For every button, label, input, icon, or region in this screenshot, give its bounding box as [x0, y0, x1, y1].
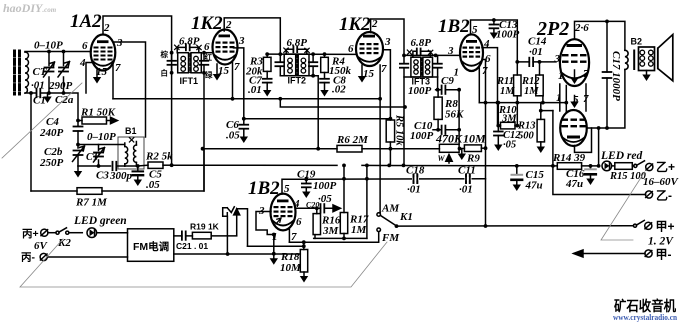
- tube V1 pin labels: [79, 22, 123, 78]
- capacitor C3 (series): [113, 162, 117, 170]
- svg-text:C17 1000P: C17 1000P: [610, 51, 622, 101]
- svg-text:240P: 240P: [39, 127, 64, 139]
- svg-text:丙+: 丙+: [22, 228, 39, 240]
- svg-text:100P: 100P: [496, 29, 520, 41]
- wire R5 bottom: [389, 142, 391, 165]
- wire tuning bus bottom: [48, 93, 79, 126]
- oscillator coil B1: [118, 137, 144, 169]
- svg-text:470K: 470K: [435, 132, 463, 146]
- svg-text:·01: ·01: [31, 80, 45, 92]
- svg-text:7: 7: [234, 61, 240, 73]
- node antenna coil bottom to AVC: [29, 91, 33, 95]
- resistor R2: [148, 162, 163, 168]
- svg-text:.05: .05: [146, 179, 160, 191]
- svg-text:300p: 300p: [109, 170, 133, 182]
- svg-text:10M: 10M: [280, 262, 302, 274]
- svg-text:250P: 250P: [39, 157, 64, 169]
- node IFT1 primary bottom: [170, 71, 174, 75]
- tube V6 1B2 envelope: [271, 194, 296, 231]
- svg-text:3: 3: [554, 53, 561, 65]
- tube V6 grid arrow pin3: [276, 218, 281, 224]
- C6 ground: [240, 137, 248, 144]
- tube V5 section link wires: [559, 84, 561, 111]
- wire audio line y178.8 to C18/C11: [306, 178, 485, 180]
- capacitor C13: [490, 25, 499, 29]
- wire IFT3 left branch: [404, 55, 405, 165]
- node top of CT1: [47, 50, 51, 54]
- svg-text:甲+: 甲+: [656, 220, 675, 234]
- resistor R13: [537, 119, 544, 141]
- wire R10 risers: [498, 103, 517, 126]
- svg-text:1. 2V: 1. 2V: [648, 236, 674, 248]
- svg-text:R6 2M: R6 2M: [336, 134, 369, 146]
- tube V4 plate bar: [466, 40, 477, 43]
- node top of C2a: [62, 50, 66, 54]
- node IFT3 B+: [403, 105, 407, 109]
- wire IFT2 primary cap branch: [279, 54, 281, 76]
- IFT2 secondary tuning capacitor: [309, 62, 317, 66]
- B1 adjuster X mark: [129, 138, 133, 142]
- capacitor C9 (series): [436, 89, 460, 91]
- capacitor C17 (vertical line): [606, 21, 608, 128]
- svg-text:100P: 100P: [313, 180, 337, 192]
- svg-text:290P: 290P: [48, 80, 73, 92]
- wire C18 feed riser: [366, 165, 368, 238]
- tube V4 grid dashes: [463, 47, 481, 58]
- svg-text:6: 6: [82, 40, 88, 52]
- wire V3 pin7 long drop to AM switch: [379, 99, 381, 213]
- svg-text:C1: C1: [33, 95, 46, 107]
- node C5: [136, 164, 140, 168]
- svg-text:乙-: 乙-: [656, 189, 672, 203]
- svg-text:FM: FM: [381, 232, 400, 244]
- tube V3 1K2 envelope: [356, 32, 383, 66]
- wire K1 to 甲+: [397, 225, 634, 227]
- capacitor C4: [74, 127, 83, 132]
- C2b ground: [77, 166, 79, 171]
- svg-text:C18: C18: [406, 165, 425, 177]
- svg-text:5: 5: [284, 183, 290, 195]
- wire V4 pin4 drop: [482, 48, 498, 126]
- svg-text:FM电调: FM电调: [133, 240, 169, 253]
- bus B+ branch y107: [280, 99, 405, 107]
- resistor R7: [77, 188, 102, 195]
- IFT1 wire color labels: [160, 49, 214, 80]
- speaker: [658, 35, 673, 81]
- svg-text:100P: 100P: [410, 130, 434, 142]
- IFT2 primary tuning capacitor: [275, 62, 283, 66]
- wire C20 line y208.3: [296, 207, 334, 209]
- wire R18 top: [303, 242, 305, 249]
- tube V3 plate bar: [363, 35, 375, 38]
- resistor R18: [300, 250, 307, 273]
- svg-text:47u: 47u: [525, 180, 543, 192]
- tube V6 pin labels: [258, 183, 302, 243]
- tube V5b pin labels 1 5 7: [556, 92, 589, 106]
- svg-text:·05: ·05: [503, 140, 516, 151]
- tube V1 plate bar: [97, 40, 109, 43]
- wire IFT1 left drop to HT bus: [171, 53, 173, 166]
- node K1 common: [395, 224, 399, 228]
- svg-text:IFT1: IFT1: [180, 76, 199, 86]
- IFT1 secondary tuning capacitor: [200, 61, 208, 65]
- svg-text:16–60V: 16–60V: [643, 176, 680, 188]
- C1 ground: [43, 97, 51, 104]
- bus screen y118.7: [244, 118, 391, 120]
- capacitor 6.8P across IFT2: [286, 49, 307, 54]
- tube V5a 2P2 upper envelope: [560, 39, 589, 86]
- link line K3 (thin): [601, 172, 645, 240]
- svg-text:C11: C11: [458, 165, 476, 177]
- svg-text:白: 白: [161, 68, 169, 78]
- C13 ground: [490, 33, 498, 40]
- svg-text:1: 1: [454, 67, 460, 79]
- svg-text:IFT2: IFT2: [288, 76, 307, 86]
- svg-text:100P: 100P: [408, 85, 432, 97]
- svg-text:C9: C9: [441, 75, 454, 87]
- FM module box: [128, 229, 174, 261]
- resistor R15: [615, 163, 633, 170]
- resistor R6: [337, 145, 362, 152]
- wire V6 pin7 drop: [288, 229, 290, 243]
- capacitor C18 (series): [414, 175, 418, 183]
- wire IFT2 secondary cap branch: [312, 54, 314, 76]
- node V2 pin7 on bus: [231, 97, 235, 101]
- C7 ground: [263, 90, 271, 97]
- LED red diode: [602, 161, 612, 171]
- svg-text:LED green: LED green: [73, 215, 127, 227]
- wire V5b plate to B2 primary: [587, 70, 625, 129]
- resistor R11: [514, 75, 521, 96]
- gang link line (thin): [2, 83, 82, 158]
- wire V1 plate rail: [103, 16, 172, 53]
- wire V3 pin3 to R5: [383, 50, 390, 120]
- wire V5a plate rail to B2: [575, 21, 625, 50]
- wire B+ drop to LED line: [598, 128, 600, 166]
- svg-text:R7 1M: R7 1M: [75, 197, 108, 209]
- wire AVC line y191: [31, 149, 204, 191]
- wire V3 pin7 drop: [379, 65, 381, 99]
- C19 ground: [302, 192, 310, 199]
- svg-text:矿石收音机: 矿石收音机: [614, 298, 676, 314]
- wire R17 riser: [343, 165, 345, 212]
- svg-text:0–10P: 0–10P: [34, 40, 63, 52]
- earphone jack: [223, 207, 248, 246]
- node IFT1 secondary top: [202, 51, 206, 55]
- tube V5a filament ground: [574, 70, 576, 78]
- switch K3a 乙+: [634, 164, 637, 167]
- svg-text:K1: K1: [399, 211, 413, 223]
- resistor R1: [82, 117, 107, 124]
- tube V1 1A2 envelope: [91, 35, 116, 71]
- svg-text:4: 4: [79, 57, 86, 69]
- wire V6 pin1 drop: [273, 235, 275, 254]
- svg-text:.05: .05: [226, 130, 240, 142]
- wire AM audio y246.2: [248, 245, 304, 247]
- svg-text:6.8P: 6.8P: [179, 36, 200, 48]
- variable capacitor C2b: [73, 146, 85, 166]
- IFT1 transformer: [178, 53, 202, 73]
- wire IFT2 bottom: [280, 75, 313, 77]
- wire C4 to C2b: [77, 131, 79, 148]
- svg-text:1M: 1M: [500, 86, 515, 97]
- svg-text:R2 5k: R2 5k: [145, 151, 173, 163]
- svg-text:6.8P: 6.8P: [287, 37, 308, 49]
- C5 ground: [134, 180, 142, 187]
- svg-text:7: 7: [115, 62, 121, 74]
- bus filament/ground y99: [113, 98, 380, 100]
- svg-text:B1: B1: [125, 126, 137, 136]
- svg-text:1: 1: [558, 70, 564, 82]
- output transformer B2: [625, 47, 655, 71]
- svg-text:3: 3: [116, 37, 123, 49]
- node R16 top: [315, 206, 319, 210]
- svg-text:1B2: 1B2: [438, 16, 470, 37]
- wire jack sleeve drop: [226, 216, 228, 254]
- B2 secondary ground: [646, 71, 648, 75]
- tube V5a plate bar: [567, 44, 583, 47]
- wire V4 pin7 drop: [478, 67, 480, 103]
- svg-text:·01: ·01: [459, 184, 473, 196]
- wire IFT2 top bus: [267, 53, 356, 55]
- wire C2b node to trimmer CT2: [78, 145, 125, 167]
- capacitor C6: [239, 125, 248, 129]
- IFT3 secondary tuning capacitor: [433, 64, 441, 68]
- node C17 top: [605, 20, 609, 24]
- capacitor C15 (electrolytic): [516, 166, 518, 185]
- wire FM module out upper y235.6: [174, 235, 237, 237]
- svg-text:2: 2: [103, 22, 110, 34]
- node IFT2 top feed: [278, 52, 282, 56]
- trimmer capacitor CT1: [44, 52, 55, 94]
- wire V2 plate rail: [224, 18, 280, 54]
- resistor R3: [263, 57, 271, 71]
- svg-text:3: 3: [384, 36, 391, 48]
- resistor R4: [321, 57, 329, 72]
- wire IFT3 right drop to C9 line: [437, 77, 439, 90]
- resistor R16: [313, 214, 320, 235]
- svg-text:.01: .01: [248, 84, 262, 96]
- svg-text:.02: .02: [332, 84, 346, 96]
- tube V5b top ground: [574, 96, 576, 102]
- wire V3 plate rail: [371, 19, 404, 55]
- svg-text:1M: 1M: [524, 86, 539, 97]
- ground at audio cathode: [273, 254, 275, 259]
- svg-text:6.8P: 6.8P: [411, 37, 432, 49]
- svg-text:·01: ·01: [529, 46, 543, 58]
- svg-text:6V: 6V: [34, 240, 49, 252]
- wire IFT2 bottom drop to AGC bus: [313, 76, 318, 149]
- variable capacitor C2a: [58, 52, 70, 94]
- svg-text:2: 2: [371, 18, 378, 30]
- tube V2 1K2 envelope: [213, 30, 238, 65]
- svg-text:56K: 56K: [445, 109, 464, 121]
- node AGC left: [201, 147, 205, 151]
- wire C9/C10 right column: [458, 90, 460, 145]
- resistor R10 (horizontal): [501, 122, 516, 129]
- svg-text:C3: C3: [96, 170, 109, 182]
- svg-text:0–10P: 0–10P: [87, 131, 116, 143]
- svg-text:2·6: 2·6: [574, 22, 589, 34]
- tube V5b plate bar: [567, 136, 580, 139]
- wire elbow to B-: [552, 111, 554, 166]
- wire V2 pin7 drop: [232, 63, 234, 99]
- svg-text:甲-: 甲-: [656, 248, 672, 262]
- wire IFT3 bottom: [404, 76, 438, 78]
- svg-text:R5 10k: R5 10k: [394, 114, 405, 146]
- wire AVC drop: [30, 93, 32, 191]
- tube V4 pin labels: [447, 24, 491, 79]
- svg-text:6: 6: [348, 43, 354, 55]
- svg-text:2: 2: [225, 19, 232, 31]
- wire IFT1 secondary bottom drop: [203, 53, 205, 191]
- svg-text:LED red: LED red: [600, 150, 642, 162]
- 470K right ground: [459, 149, 464, 154]
- tube V2 pin labels: [204, 19, 245, 77]
- wire 丙- to FM module: [47, 256, 127, 258]
- IFT2 transformer: [284, 54, 309, 76]
- R13 ground: [537, 147, 545, 154]
- terminal 乙-: [645, 191, 652, 198]
- capacitor C5: [137, 166, 139, 180]
- node C13: [492, 18, 496, 22]
- svg-text:1: 1: [272, 231, 278, 243]
- terminal 甲+: [645, 222, 652, 229]
- wire FM module out lower y254: [174, 253, 300, 255]
- svg-text:AM: AM: [381, 203, 400, 215]
- svg-text:7: 7: [381, 63, 387, 75]
- terminal 甲- with arrow line: [574, 250, 646, 257]
- wire V4 pin6 drop: [483, 60, 486, 227]
- svg-text:·05: ·05: [318, 193, 332, 205]
- tube V6 grid dashes: [274, 206, 293, 217]
- wire IFT1 primary cap stubs: [171, 53, 173, 73]
- resistor R5: [386, 120, 394, 142]
- trimmer capacitor CT2: [94, 145, 105, 167]
- svg-text:C19: C19: [297, 169, 316, 181]
- svg-text:3M: 3M: [501, 114, 517, 125]
- capacitor C12: [494, 132, 503, 136]
- svg-text:www.crystalradio.cn: www.crystalradio.cn: [613, 313, 677, 322]
- switch K3b 甲+: [633, 224, 636, 227]
- svg-text:R14 39: R14 39: [552, 152, 586, 164]
- capacitor C19: [302, 184, 311, 188]
- tube V2 grid dashes: [216, 42, 235, 53]
- wire V6 plate rail y179: [282, 179, 306, 194]
- capacitor C20 (series): [321, 204, 325, 212]
- wire LED to FM module: [97, 232, 128, 234]
- svg-text:R9: R9: [466, 153, 480, 165]
- svg-text:500: 500: [518, 131, 535, 142]
- svg-text:CT: CT: [86, 152, 100, 163]
- tube V1 grid dashes: [94, 47, 113, 61]
- IFT3 primary tuning capacitor: [400, 64, 408, 68]
- link line K2-K1 (thin): [20, 239, 387, 287]
- svg-text:C21 . 01: C21 . 01: [176, 241, 208, 251]
- tube V5b 2P2 lower envelope: [560, 110, 587, 146]
- tube V2 cathode ground: [216, 64, 218, 74]
- tube V5a grid dashes: [562, 54, 587, 63]
- R18 ground: [300, 276, 308, 283]
- node C19: [304, 177, 308, 181]
- bus AGC y148.7: [203, 148, 440, 150]
- tube V3 pin labels: [348, 18, 391, 80]
- LED green diode: [87, 228, 97, 238]
- potentiometer 470K: [439, 144, 459, 152]
- svg-text:R15 100: R15 100: [609, 171, 647, 182]
- wire FM line y242.2: [289, 232, 378, 242]
- svg-text:3M: 3M: [322, 225, 340, 237]
- resistor R9: [464, 145, 481, 152]
- tube V5b grid dashes: [562, 119, 587, 128]
- wire V1 pin4 stub: [86, 63, 92, 94]
- tube V3 cathode ground: [361, 65, 363, 76]
- wire IFT1 secondary top to V2 grid: [204, 52, 213, 54]
- svg-text:5: 5: [472, 24, 478, 36]
- bus HT y165.2: [172, 164, 558, 167]
- node IFT1 primary top: [170, 51, 174, 55]
- resistor R17: [340, 213, 347, 234]
- node C14 to R12: [538, 60, 542, 64]
- capacitor C1 (series to ground): [37, 89, 41, 97]
- capacitor C7: [263, 79, 272, 83]
- tube V3 grid dashes: [360, 43, 379, 54]
- capacitor C11 (series): [466, 175, 470, 183]
- node R1/C4: [76, 119, 80, 123]
- wire R13 to V5b elbow: [541, 110, 553, 112]
- switch K1 AM contact: [377, 213, 381, 217]
- capacitor C16 (electrolytic): [590, 166, 592, 179]
- svg-text:CT: CT: [33, 66, 48, 78]
- svg-text:6: 6: [296, 216, 302, 228]
- svg-text:1A2: 1A2: [70, 11, 102, 32]
- svg-text:绿: 绿: [205, 70, 213, 80]
- node C6: [242, 117, 246, 121]
- resistor R14 (series in HT): [557, 163, 581, 170]
- tube V1 cathode ground: [96, 70, 98, 77]
- wire IFT3 right branch: [437, 55, 439, 77]
- C12 ground: [494, 145, 502, 152]
- svg-text:乙+: 乙+: [656, 160, 675, 174]
- C20 out arrow: [333, 205, 341, 212]
- svg-text:B2: B2: [631, 37, 643, 47]
- tube V4 1B2 envelope: [460, 34, 483, 71]
- wire IFT3 top to V4 grid: [404, 54, 460, 56]
- IFT3 transformer: [411, 57, 433, 77]
- resistor R12: [536, 75, 543, 96]
- svg-text:丙-: 丙-: [21, 252, 35, 264]
- C8 ground: [320, 90, 328, 97]
- capacitor C21 (series): [182, 231, 186, 239]
- R1 AVC arrow: [107, 117, 118, 123]
- wire antenna coil bottom: [25, 92, 36, 94]
- resistor R19: [192, 232, 211, 239]
- capacitor C8: [320, 79, 329, 83]
- wire V4 plate rail: [471, 20, 518, 75]
- IFT1 primary tuning capacitor: [168, 61, 177, 65]
- svg-text:3: 3: [238, 35, 245, 47]
- resistor R8: [434, 97, 442, 119]
- terminal 乙+: [646, 163, 653, 170]
- 470K wiper arrow: [446, 155, 452, 164]
- svg-text:R19 1K: R19 1K: [190, 222, 220, 232]
- wire V6 grid bracket: [256, 212, 274, 235]
- wire V1 pin3 to B1: [115, 42, 146, 137]
- ferrite rod antenna bars: [15, 51, 20, 94]
- svg-text:47u: 47u: [565, 178, 583, 190]
- wire V5b filament return: [575, 128, 592, 152]
- node IFT3 top: [402, 54, 406, 58]
